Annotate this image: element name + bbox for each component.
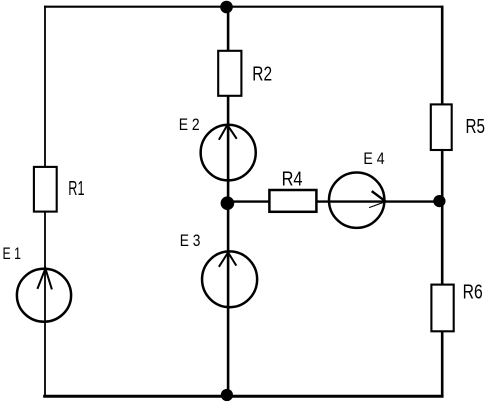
svg-text:R5: R5 <box>466 115 486 138</box>
svg-text:R4: R4 <box>282 167 303 190</box>
svg-text:E 1: E 1 <box>3 244 21 263</box>
svg-text:R1: R1 <box>68 177 84 200</box>
svg-text:E 3: E 3 <box>180 231 201 250</box>
svg-text:R6: R6 <box>463 281 483 304</box>
svg-text:E 2: E 2 <box>179 115 200 134</box>
svg-text:R2: R2 <box>252 62 272 85</box>
svg-text:E 4: E 4 <box>363 149 384 168</box>
